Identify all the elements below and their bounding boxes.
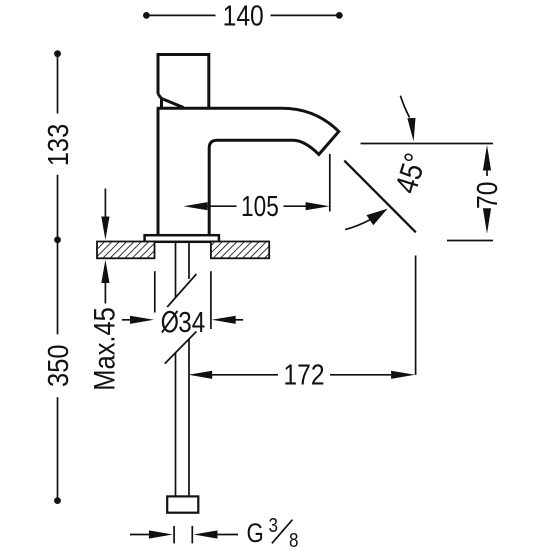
svg-text:140: 140 <box>223 0 264 32</box>
dimension 140 top <box>143 12 343 19</box>
pipe break line 1 <box>167 274 196 307</box>
vertical line below diagonal to 172 <box>415 256 417 375</box>
svg-text:G: G <box>247 519 264 548</box>
faucet body and spout outline <box>157 108 339 235</box>
svg-text:8: 8 <box>289 529 298 548</box>
witness line under spout tip <box>329 154 331 212</box>
deck right hatched <box>211 242 269 259</box>
45 degree reference line horizontal <box>361 143 494 145</box>
leader arrow curved down to line <box>400 96 409 118</box>
svg-text:3: 3 <box>269 514 278 537</box>
dimension 70 right <box>447 145 493 241</box>
svg-text:350: 350 <box>41 344 74 387</box>
dimension 172 <box>188 371 415 379</box>
label Ø34 <box>162 306 205 338</box>
dimension 105 <box>184 154 330 212</box>
faucet handle <box>158 55 209 109</box>
arc arrow pointing to diagonal <box>345 220 370 230</box>
svg-text:172: 172 <box>283 359 324 391</box>
svg-text:105: 105 <box>241 189 279 222</box>
deck left hatched <box>97 242 155 259</box>
svg-text:34: 34 <box>178 306 205 338</box>
svg-text:70: 70 <box>471 182 503 209</box>
bottom fitting <box>167 496 198 512</box>
supply pipe upper <box>165 243 197 496</box>
45 degree diagonal line <box>344 161 416 233</box>
base plate <box>145 235 219 242</box>
svg-text:133: 133 <box>41 124 74 167</box>
dimension G 3/8 <box>130 526 238 544</box>
label G 3/8 <box>247 514 299 548</box>
supply pipe lower <box>175 353 177 497</box>
dimension Max.45 <box>101 189 109 304</box>
dimension 133/350 left vertical <box>54 50 61 504</box>
pipe break line 2 <box>165 332 197 364</box>
dimension Ø34 arrows <box>122 271 243 329</box>
svg-text:Max.45: Max.45 <box>88 307 121 391</box>
